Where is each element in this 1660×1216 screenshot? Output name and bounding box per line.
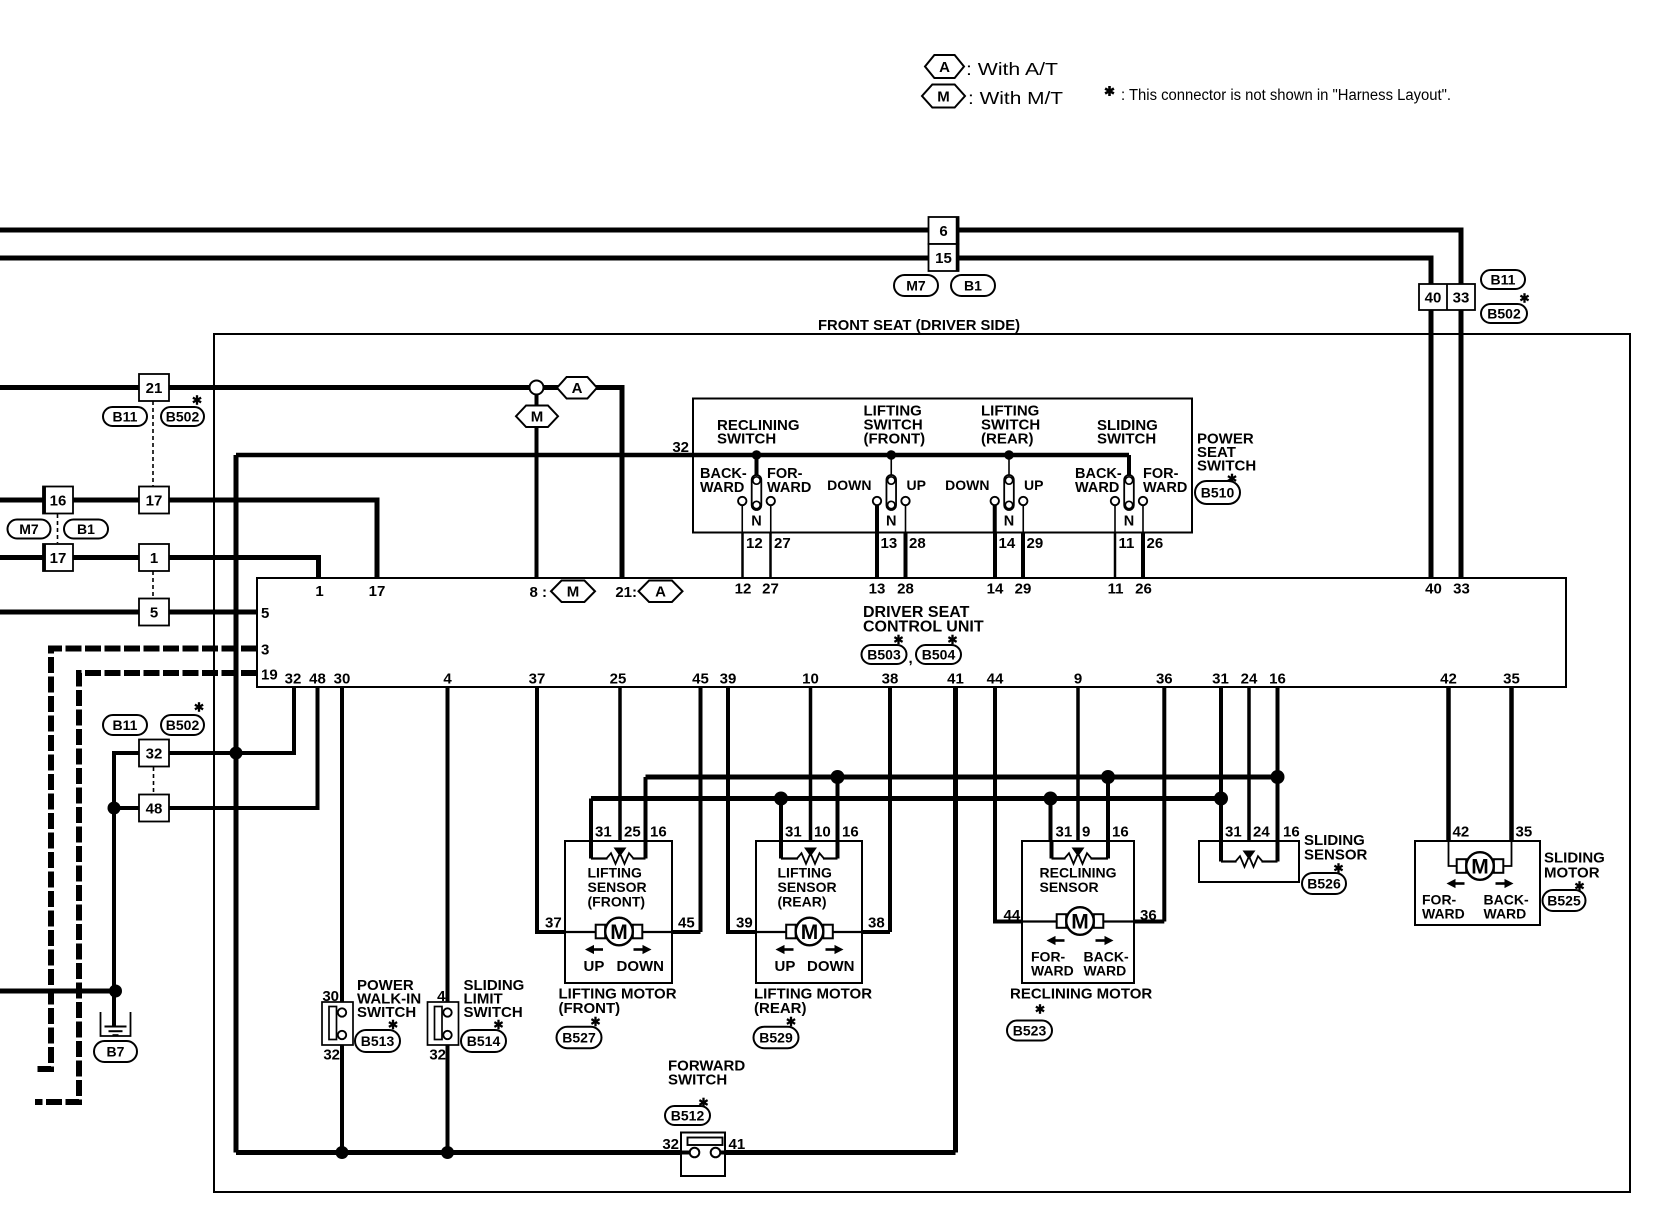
junction dot bus31 lifting rear	[774, 792, 788, 806]
connector box 15	[929, 244, 959, 271]
svg-text:35: 35	[1503, 671, 1520, 688]
connector oval B523	[1007, 1021, 1052, 1041]
svg-text:40: 40	[1425, 290, 1442, 307]
svg-text:32: 32	[285, 671, 302, 688]
wire row 21 to A/M split	[0, 385, 530, 390]
arrows up/down lifting rear	[776, 945, 844, 954]
lifting sensor rear resistor	[781, 841, 838, 864]
svg-text:16: 16	[1112, 824, 1129, 841]
svg-text:32: 32	[672, 439, 689, 456]
svg-text:5: 5	[261, 605, 269, 622]
svg-text:3: 3	[261, 642, 269, 659]
asterisk B503	[894, 635, 902, 645]
svg-text:(REAR): (REAR)	[778, 894, 827, 910]
inline dashed link 21-17	[152, 401, 154, 486]
label backward (sliding)	[1075, 466, 1122, 496]
connector box 16	[43, 487, 73, 514]
label reclining sensor	[1040, 865, 1117, 896]
connector box 1	[139, 544, 169, 571]
svg-text:M: M	[801, 921, 819, 944]
svg-text:48: 48	[146, 800, 163, 817]
svg-text:40: 40	[1425, 581, 1442, 598]
wire control unit pin 38 to lifting motor rear	[862, 687, 890, 932]
svg-text:B527: B527	[562, 1030, 596, 1046]
svg-text:24: 24	[1241, 671, 1258, 688]
wire sliding limit switch to ground bus	[446, 1039, 450, 1153]
wire control unit pin 42 to sliding motor	[1446, 687, 1451, 841]
svg-text:M7: M7	[19, 521, 39, 537]
lifting motor rear box	[756, 841, 862, 983]
shielded wire to control unit pin 3	[35, 649, 257, 1070]
svg-text:15: 15	[935, 250, 952, 267]
connector 6/15 thick edge	[956, 218, 960, 271]
wire bus net-31	[591, 796, 1221, 801]
svg-text:17: 17	[50, 550, 67, 567]
connector oval B7	[94, 1041, 137, 1062]
svg-text:B504: B504	[922, 647, 956, 663]
svg-text:31: 31	[1056, 824, 1073, 841]
svg-text:31: 31	[1212, 671, 1229, 688]
junction circle A/M split	[530, 381, 544, 395]
label lifting switch rear	[981, 403, 1040, 448]
wire ground feed row	[0, 989, 116, 994]
wire net-31 drop to reclining sensor	[1049, 799, 1053, 842]
svg-text:6: 6	[939, 223, 947, 240]
svg-text:19: 19	[261, 667, 278, 684]
svg-text:N: N	[751, 514, 761, 530]
svg-text:B11: B11	[113, 717, 138, 733]
sliding motor box	[1415, 841, 1540, 925]
svg-text:M: M	[610, 921, 628, 944]
shielded wire to control unit pin 19	[35, 673, 257, 1102]
connector oval B1 (left)	[64, 520, 108, 539]
svg-text:33: 33	[1453, 290, 1470, 307]
svg-text:DOWN: DOWN	[807, 958, 855, 975]
svg-text:35: 35	[1516, 824, 1533, 841]
svg-text:UP: UP	[775, 958, 796, 975]
svg-text:12: 12	[735, 581, 752, 598]
pin labels sliding motor	[1453, 824, 1533, 841]
svg-text:31: 31	[1225, 824, 1242, 841]
arrows up/down lifting front	[585, 945, 652, 954]
junction dot ground leg upper	[108, 802, 121, 815]
pin labels lifting motor front	[545, 915, 695, 932]
svg-text:48: 48	[309, 671, 326, 688]
hexagon M inline	[516, 406, 558, 428]
svg-text:42: 42	[1453, 824, 1470, 841]
junction dot bus16 lifting rear	[831, 770, 845, 784]
junction dot net-32 trunk	[230, 747, 243, 760]
wire control unit pin 32 to connector 32	[168, 687, 294, 753]
svg-text:17: 17	[369, 583, 386, 600]
svg-text:WARD: WARD	[1075, 480, 1119, 496]
svg-text:B526: B526	[1307, 876, 1341, 892]
control unit pin 21 hexagon A	[615, 581, 682, 603]
svg-text:DOWN: DOWN	[617, 958, 665, 975]
wire control unit pin 36 to reclining motor	[1134, 687, 1164, 922]
svg-text:14: 14	[999, 535, 1016, 552]
connector oval B512	[665, 1106, 710, 1125]
connector oval M7 (left)	[8, 520, 51, 539]
junction dot bus16 reclining	[1101, 770, 1115, 784]
label power walk-in switch	[357, 977, 421, 1021]
pin labels power walk-in switch	[322, 988, 340, 1064]
connector oval B502 (lower left)	[161, 715, 204, 735]
asterisk B502 mid left	[193, 395, 201, 405]
label backward (reclining)	[700, 466, 747, 496]
connector oval B526	[1302, 873, 1346, 894]
svg-text:SENSOR: SENSOR	[1040, 879, 1099, 895]
wire control unit pin 48 to connector 48	[168, 687, 318, 808]
wire bus net-32 inside power seat switch	[693, 453, 1129, 458]
asterisk B523	[1036, 1004, 1044, 1014]
asterisk B527	[591, 1017, 599, 1027]
svg-text:(FRONT): (FRONT)	[864, 431, 926, 448]
svg-text:M7: M7	[906, 278, 926, 294]
svg-text:13: 13	[881, 535, 898, 552]
label forward switch	[668, 1058, 745, 1089]
ground symbol B7	[101, 1012, 131, 1036]
svg-text:B502: B502	[1487, 306, 1521, 322]
label UP DOWN lifting front	[584, 958, 665, 975]
svg-text:41: 41	[947, 671, 964, 688]
asterisk B504	[948, 635, 956, 645]
reclining sensor resistor	[1052, 841, 1109, 864]
label lifting motor front	[559, 986, 677, 1018]
connector box 6	[929, 217, 959, 244]
junction dot bus16 sliding	[1271, 770, 1285, 784]
svg-text:9: 9	[1074, 671, 1082, 688]
svg-text:36: 36	[1140, 907, 1157, 924]
motor M reclining	[1022, 907, 1134, 935]
label driver seat control unit	[863, 604, 984, 636]
connector box 40/33	[1419, 284, 1475, 310]
junction dot sliding-limit ground	[441, 1146, 454, 1159]
asterisk B514	[494, 1020, 502, 1030]
svg-text:14: 14	[987, 581, 1004, 598]
svg-text:38: 38	[882, 671, 899, 688]
svg-text:44: 44	[1004, 907, 1021, 924]
svg-text:FRONT SEAT (DRIVER SIDE): FRONT SEAT (DRIVER SIDE)	[818, 317, 1020, 334]
svg-text:B523: B523	[1013, 1023, 1047, 1039]
wire control unit pin 4 to sliding limit switch	[446, 687, 450, 1009]
svg-text:WARD: WARD	[1031, 963, 1074, 979]
wire row 16/17 to control unit pin 17	[0, 500, 377, 578]
svg-text:36: 36	[1156, 671, 1173, 688]
svg-text:16: 16	[650, 824, 667, 841]
legend asterisk note	[1105, 86, 1451, 104]
svg-text:29: 29	[1015, 581, 1032, 598]
asterisk B526	[1334, 863, 1342, 873]
sliding switch contacts	[1111, 455, 1147, 533]
asterisk B513	[389, 1020, 397, 1030]
reclining motor box	[1022, 841, 1134, 983]
connector oval B510	[1195, 481, 1240, 504]
svg-text:39: 39	[736, 915, 753, 932]
svg-text:B529: B529	[759, 1030, 793, 1046]
wire net-16 drop to lifting sensor rear	[836, 777, 840, 841]
svg-text:: With A/T: : With A/T	[966, 59, 1058, 79]
comma between B503 B504	[909, 650, 913, 667]
svg-text:16: 16	[1269, 671, 1286, 688]
svg-text:41: 41	[729, 1136, 746, 1153]
wire power feed 1 (pin 6 to pin 33)	[0, 230, 1461, 578]
motor M lifting front	[565, 918, 672, 946]
svg-text:: With M/T: : With M/T	[968, 88, 1063, 108]
pin labels reclining sensor	[1056, 824, 1129, 841]
junction dot bus31 reclining	[1044, 792, 1058, 806]
asterisk B512	[699, 1098, 707, 1108]
label lifting switch front	[864, 403, 926, 448]
wires power seat switch to control unit (pins 12 27 13 28 14 29 11 26)	[743, 533, 1144, 579]
wire control unit pin 24 wiper sliding	[1247, 687, 1251, 848]
pin labels below power seat switch	[746, 535, 1163, 552]
svg-text:SWITCH: SWITCH	[1097, 431, 1156, 448]
wire power feed 2 (pin 15 to pin 40)	[0, 258, 1431, 578]
svg-text:(REAR): (REAR)	[754, 1000, 807, 1017]
label reclining motor	[1010, 986, 1152, 1003]
svg-text:13: 13	[869, 581, 886, 598]
label forward (sliding)	[1143, 466, 1187, 496]
control unit top pin numbers	[315, 581, 1470, 601]
svg-text:1: 1	[315, 583, 323, 600]
svg-text:MOTOR: MOTOR	[1544, 865, 1600, 882]
connector box 32 (lower)	[139, 740, 169, 767]
label up (lifting front)	[907, 477, 926, 493]
wire control unit pin 9 wiper reclining	[1076, 687, 1080, 849]
connector box 17 (row4)	[43, 544, 73, 571]
asterisk B502 top right	[1520, 293, 1528, 303]
svg-text:16: 16	[50, 492, 67, 509]
connector oval B1 (top)	[951, 275, 995, 296]
legend text With M/T	[968, 88, 1063, 108]
wire row 17/1 to control unit pin 1	[0, 558, 319, 579]
label sliding limit switch	[464, 977, 525, 1021]
svg-text:M: M	[531, 409, 544, 426]
svg-text:WARD: WARD	[767, 480, 811, 496]
lifting sensor front resistor	[591, 841, 646, 864]
pin labels lifting sensor rear	[785, 824, 859, 841]
svg-text:N: N	[1124, 514, 1134, 530]
connector oval B11 (top right)	[1481, 270, 1525, 289]
wire M branch to control unit pin 8	[535, 393, 539, 578]
legend hexagon A	[925, 55, 964, 78]
connector oval B11 (mid left)	[103, 407, 147, 426]
wire control unit pin 10 wiper lifting rear	[809, 687, 813, 849]
svg-text:UP: UP	[1024, 477, 1043, 493]
svg-text:B1: B1	[964, 278, 982, 294]
label reclining switch	[717, 417, 800, 448]
svg-text:42: 42	[1440, 671, 1457, 688]
wire row 5 to control unit pin 5	[0, 610, 257, 615]
wire net-31 drop to lifting sensor front	[589, 799, 593, 842]
reclining switch contacts	[738, 450, 775, 532]
wire control unit pin 25 wiper lifting front	[618, 687, 622, 849]
svg-text:B11: B11	[1491, 272, 1516, 288]
svg-text:DOWN: DOWN	[827, 477, 871, 493]
svg-text:11: 11	[1108, 581, 1124, 598]
connector oval M7 (top)	[894, 275, 938, 296]
control unit left pin numbers	[261, 605, 278, 684]
svg-text:SENSOR: SENSOR	[1304, 847, 1368, 864]
svg-text:SWITCH: SWITCH	[668, 1072, 727, 1089]
svg-text:UP: UP	[584, 958, 605, 975]
svg-text:16: 16	[842, 824, 859, 841]
svg-text:WARD: WARD	[700, 480, 744, 496]
motor M lifting rear	[756, 918, 862, 946]
svg-text:B512: B512	[671, 1108, 705, 1124]
junction dot walk-in ground	[336, 1146, 349, 1159]
svg-text:N: N	[1004, 514, 1014, 530]
connector oval B502 (top right)	[1481, 304, 1527, 323]
asterisk B525	[1575, 881, 1583, 891]
arrows forward/backward reclining	[1047, 936, 1114, 945]
connector oval B514	[461, 1030, 506, 1052]
pin labels reclining motor	[1004, 907, 1157, 924]
connector box 17 (row3)	[139, 487, 169, 514]
asterisk B529	[787, 1017, 795, 1027]
svg-text:10: 10	[802, 671, 819, 688]
svg-text:25: 25	[624, 824, 641, 841]
power walk-in switch symbol	[322, 1002, 353, 1045]
wire connector 48 to ground	[114, 808, 140, 1026]
svg-text:33: 33	[1453, 581, 1470, 598]
svg-text:31: 31	[785, 824, 802, 841]
connector oval B502 (mid left)	[161, 407, 204, 426]
wire control unit pin 31 to sliding sensor	[1219, 687, 1223, 841]
svg-text:45: 45	[678, 915, 695, 932]
svg-text:B502: B502	[166, 409, 200, 425]
wire control unit pin 37 to lifting motor front	[537, 687, 565, 932]
svg-text:28: 28	[909, 535, 926, 552]
svg-text:16: 16	[1283, 824, 1300, 841]
svg-text:WARD: WARD	[1143, 480, 1187, 496]
svg-text:32: 32	[323, 1047, 340, 1064]
connector oval B529	[754, 1027, 799, 1049]
forward switch box	[681, 1133, 725, 1177]
svg-text:A: A	[655, 584, 666, 601]
svg-text:8 :: 8 :	[529, 584, 547, 601]
svg-text:1: 1	[150, 550, 158, 567]
pin labels sliding limit switch	[429, 988, 446, 1064]
svg-text:B1: B1	[77, 521, 95, 537]
label lifting sensor front	[588, 865, 647, 910]
label forward (reclining)	[767, 466, 811, 496]
svg-text:30: 30	[322, 988, 339, 1005]
svg-text:9: 9	[1082, 824, 1090, 841]
junction dot bus31 sliding	[1214, 792, 1228, 806]
label up (lifting rear)	[1024, 477, 1043, 493]
svg-text:A: A	[572, 380, 583, 397]
junction dot ground leg lower	[109, 985, 122, 998]
lifting switch front contacts	[873, 450, 910, 532]
svg-text:29: 29	[1027, 535, 1044, 552]
svg-text:12: 12	[746, 535, 763, 552]
connector oval B504	[916, 645, 961, 664]
svg-text:32: 32	[429, 1047, 446, 1064]
svg-text:10: 10	[814, 824, 831, 841]
connector oval B503	[862, 645, 907, 664]
wire control unit pin 30 to power walk-in switch	[340, 687, 344, 1009]
lifting switch rear contacts	[991, 450, 1028, 532]
connector oval B513	[355, 1030, 400, 1052]
svg-text:31: 31	[595, 824, 612, 841]
connector box 48 (lower)	[139, 795, 169, 822]
front seat border box	[214, 334, 1630, 1192]
label UP DOWN lifting rear	[775, 958, 855, 975]
wire control unit pin 45 to lifting motor front	[672, 687, 701, 932]
label down (lifting front)	[827, 477, 871, 493]
sliding sensor box	[1199, 841, 1299, 882]
svg-text:28: 28	[897, 581, 914, 598]
wire A branch to control unit pin 21	[543, 388, 622, 579]
wire bus net-32 into power seat switch	[236, 453, 1129, 458]
svg-text:B525: B525	[1547, 893, 1581, 909]
label 32 at power seat switch	[672, 439, 689, 456]
label sliding sensor	[1304, 832, 1368, 864]
svg-text:44: 44	[987, 671, 1004, 688]
svg-text:45: 45	[692, 671, 709, 688]
svg-text:A: A	[939, 59, 950, 76]
sliding limit switch symbol	[428, 1002, 459, 1045]
svg-text:M: M	[937, 88, 950, 105]
svg-text:4: 4	[443, 671, 452, 688]
sliding sensor resistor	[1221, 841, 1278, 867]
wire net-16 drop to lifting sensor front	[644, 777, 648, 841]
svg-text:17: 17	[146, 492, 163, 509]
svg-text:(FRONT): (FRONT)	[588, 894, 646, 910]
wire net-32 vertical trunk	[234, 455, 239, 1153]
label sliding switch	[1097, 417, 1158, 448]
svg-text:B503: B503	[867, 647, 901, 663]
label lifting sensor rear	[778, 865, 837, 910]
label FRONT SEAT (DRIVER SIDE)	[816, 316, 1022, 334]
svg-text:WARD: WARD	[1084, 963, 1127, 979]
pin labels lifting sensor front	[595, 824, 667, 841]
svg-text:M: M	[567, 584, 580, 601]
svg-text:(REAR): (REAR)	[981, 431, 1034, 448]
connector oval B527	[557, 1027, 602, 1049]
wire net-31 drop to lifting sensor rear	[779, 799, 783, 842]
label lifting motor rear	[754, 986, 872, 1018]
svg-text:26: 26	[1135, 581, 1152, 598]
svg-text:M: M	[1471, 856, 1489, 879]
lifting motor front box	[565, 841, 672, 983]
connector box 21	[139, 374, 169, 401]
driver seat control unit box	[257, 578, 1566, 687]
svg-text:B11: B11	[113, 409, 138, 425]
svg-text:SWITCH: SWITCH	[1197, 458, 1256, 475]
wire control unit pin 16 to sliding sensor	[1276, 687, 1280, 841]
pin labels sliding sensor	[1225, 824, 1300, 841]
svg-text:37: 37	[529, 671, 546, 688]
arrows forward/backward sliding motor	[1447, 879, 1514, 888]
asterisk B510	[1228, 474, 1236, 484]
svg-text:38: 38	[868, 915, 885, 932]
label FOR-/BACK-WARD reclining	[1031, 949, 1129, 979]
wire net-16 drop to reclining sensor	[1106, 777, 1110, 841]
svg-text:M: M	[1071, 911, 1089, 934]
pin labels forward switch	[662, 1136, 745, 1153]
svg-text:4: 4	[437, 988, 446, 1005]
svg-text:5: 5	[150, 604, 158, 621]
svg-text:CONTROL UNIT: CONTROL UNIT	[863, 619, 984, 636]
control unit pin 8 hexagon M	[529, 581, 595, 603]
svg-text:(FRONT): (FRONT)	[559, 1000, 621, 1017]
connector oval B11 (lower left)	[103, 715, 147, 735]
hexagon A inline	[557, 377, 597, 399]
svg-text:B502: B502	[166, 717, 200, 733]
